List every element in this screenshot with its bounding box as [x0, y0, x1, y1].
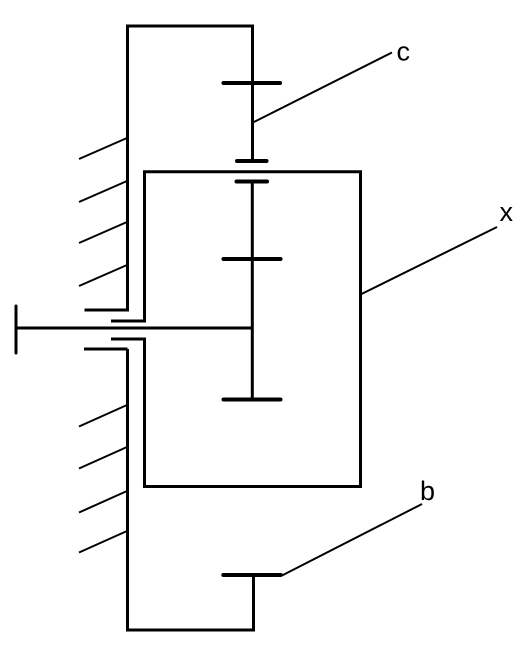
svg-text:x: x [500, 197, 514, 227]
svg-text:c: c [397, 37, 411, 67]
svg-text:b: b [420, 476, 435, 506]
